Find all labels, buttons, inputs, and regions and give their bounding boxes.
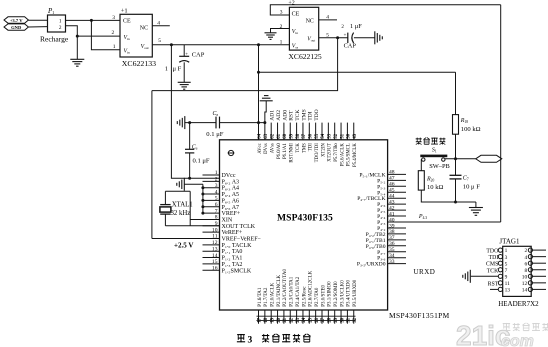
svg-text:58: 58 — [296, 133, 301, 138]
svg-text:7: 7 — [215, 208, 218, 214]
svg-text:TDO: TDO — [486, 249, 498, 255]
svg-text:59: 59 — [289, 133, 294, 138]
svg-text:6: 6 — [215, 202, 218, 208]
wire switch right to flag — [445, 158, 476, 160]
svg-text:GND: GND — [11, 25, 22, 30]
top net labels AD1 AD2 AD0 RST TCK TMS TDI TDO — [270, 109, 320, 121]
bottom pin number rail line 2 — [257, 319, 356, 321]
svg-text:55: 55 — [315, 133, 320, 138]
junction at AVcc stub — [257, 121, 260, 124]
svg-text:P2.5/Rosc: P2.5/Rosc — [302, 286, 307, 307]
connector JTAG1 box — [503, 246, 532, 296]
svg-text:TCK: TCK — [487, 268, 499, 274]
svg-text:P5.5/SMCL: P5.5/SMCL — [347, 143, 352, 166]
svg-text:3: 3 — [215, 183, 218, 189]
junction U2 Vout node — [336, 36, 339, 39]
svg-text:9: 9 — [505, 274, 508, 280]
svg-text:P₆.₆ A7: P₆.₆ A7 — [222, 205, 240, 211]
wire 2.5V to MCU pin11 — [152, 238, 220, 240]
svg-text:S1: S1 — [432, 148, 437, 154]
wire C2 to ground — [354, 37, 375, 39]
svg-text:8: 8 — [524, 268, 527, 274]
svg-text:P3.2/SOMI0: P3.2/SOMI0 — [334, 281, 339, 307]
MCU right pin labels — [357, 172, 386, 267]
svg-text:10 kΩ: 10 kΩ — [427, 184, 444, 191]
ground symbol at U2 pin2 — [265, 32, 277, 34]
resistor R18 body — [453, 115, 459, 135]
svg-text:+2: +2 — [288, 1, 294, 7]
svg-text:6: 6 — [524, 261, 527, 267]
MCU left pin stubs 1-16 — [203, 175, 220, 270]
svg-text:11: 11 — [505, 281, 510, 287]
svg-text:52: 52 — [334, 133, 339, 138]
wire R20 to ground line — [421, 190, 476, 202]
wire 3.3V to reset pullup — [259, 71, 456, 73]
svg-text:7: 7 — [505, 268, 508, 274]
svg-text:4: 4 — [524, 255, 527, 261]
svg-text:NC: NC — [306, 18, 314, 24]
svg-text:TDI: TDI — [309, 143, 314, 151]
wire AVss line left segment — [185, 122, 216, 124]
svg-text:49: 49 — [353, 133, 358, 138]
svg-text:51: 51 — [340, 133, 345, 138]
svg-text:8: 8 — [215, 215, 218, 221]
regulator U1 XC622133 box — [120, 14, 152, 57]
MCU bottom pin numbers 17-32 — [258, 317, 358, 322]
analog pins bus vertical — [202, 184, 204, 213]
MCU top pin numbers 64-49 — [258, 133, 358, 138]
svg-text:P6.1/A1: P6.1/A1 — [283, 143, 288, 159]
wire GND flag to P1 — [28, 26, 47, 28]
svg-text:4: 4 — [215, 189, 218, 195]
svg-text:AD2: AD2 — [276, 110, 282, 121]
svg-text:5: 5 — [215, 196, 218, 202]
wire switch left to R20 — [420, 160, 422, 171]
svg-text:Vss: Vss — [292, 43, 299, 49]
svg-text:53: 53 — [328, 133, 333, 138]
svg-text:5: 5 — [158, 38, 161, 44]
svg-text:P₁.₅SMCLK: P₁.₅SMCLK — [222, 268, 252, 274]
svg-text:AVss: AVss — [271, 143, 276, 153]
svg-text:10 μ F: 10 μ F — [463, 184, 480, 191]
svg-text:SW–PB: SW–PB — [429, 163, 450, 170]
svg-text:5: 5 — [505, 261, 508, 267]
JTAG right pin numbers — [522, 248, 528, 293]
ground symbol sideways at C6 top — [184, 116, 186, 129]
svg-text:16: 16 — [212, 265, 218, 271]
ground symbol below C1 — [178, 81, 191, 83]
ground symbol above DVss pin — [260, 100, 273, 102]
ground symbol reset circuit — [469, 207, 483, 209]
U1 pin labels CE Vin Vin NC Vout — [123, 18, 149, 54]
junction reset pullup branch — [257, 71, 260, 74]
svg-text:TMS: TMS — [302, 143, 307, 153]
svg-text:MSP430F1351PM: MSP430F1351PM — [389, 311, 450, 320]
wire AVcc stub up to 3.3V rail — [258, 45, 260, 140]
wire DVss ground stem — [265, 101, 266, 123]
svg-text:13: 13 — [212, 246, 218, 252]
svg-text:P3.5/URXD0: P3.5/URXD0 — [353, 279, 358, 307]
capacitor C1 plates — [179, 56, 189, 62]
svg-text:61: 61 — [277, 133, 282, 138]
svg-text:C7: C7 — [463, 176, 469, 182]
junction AVcc branch — [257, 43, 260, 46]
svg-text:R20: R20 — [426, 176, 434, 182]
svg-text:TDI: TDI — [489, 255, 499, 261]
svg-text:13: 13 — [505, 288, 511, 294]
wire pullup down to R18 — [455, 72, 457, 114]
svg-text:62: 62 — [270, 133, 275, 138]
svg-text:12: 12 — [212, 240, 218, 246]
MCU left pin numbers 1-16 — [212, 170, 218, 271]
connector flag GND — [4, 24, 28, 30]
svg-text:TMS: TMS — [301, 109, 307, 121]
svg-text:RST: RST — [488, 282, 499, 288]
svg-text:P5.6/ACLK: P5.6/ACLK — [340, 143, 345, 167]
svg-text:XC622133: XC622133 — [122, 59, 156, 68]
svg-text:TDO: TDO — [314, 109, 320, 121]
capacitor C7 10uF — [450, 159, 462, 202]
caption figure 3 — [237, 334, 311, 345]
svg-text:P₁.₁ TA0: P₁.₁ TA0 — [222, 249, 243, 255]
svg-text:P3.4/UTXD0: P3.4/UTXD0 — [347, 279, 352, 306]
svg-text:μ F: μ F — [173, 66, 182, 73]
U1 NC stub — [152, 25, 170, 27]
svg-text:3: 3 — [112, 15, 115, 21]
svg-text:P4.3: P4.3 — [418, 214, 427, 220]
svg-text:Vin: Vin — [124, 35, 131, 41]
wire 2.5V left rail down — [151, 91, 153, 239]
svg-text:Vout: Vout — [307, 36, 315, 42]
wire U2 Vout — [319, 37, 348, 39]
wire ground node to U1 pin2 — [77, 35, 120, 37]
svg-text:1 μF: 1 μF — [350, 23, 362, 30]
junction C6 bottom on DVcc wire — [188, 177, 191, 180]
svg-text:VREF+: VREF+ — [222, 211, 241, 217]
svg-text:P2.0/ACLK: P2.0/ACLK — [271, 282, 276, 306]
MCU bottom pin stubs 17-32 — [259, 310, 354, 324]
svg-text:TCK: TCK — [296, 143, 301, 153]
svg-text:2: 2 — [341, 25, 344, 30]
svg-text:AD1: AD1 — [270, 110, 276, 121]
wire U2 Vout down to 2.5V line — [152, 38, 338, 91]
wire P1 pin2 to ground node — [66, 26, 78, 36]
svg-text:TDI: TDI — [308, 111, 314, 120]
svg-text:P1: P1 — [47, 7, 54, 15]
bottom pin number rail line — [257, 315, 356, 317]
svg-text:3: 3 — [248, 335, 253, 345]
JTAG left pin circles — [498, 248, 502, 292]
svg-text:CE: CE — [123, 18, 131, 24]
MCU top inside pin labels — [258, 143, 358, 167]
svg-text:VeREF+: VeREF+ — [222, 230, 243, 236]
svg-text:XTAL1: XTAL1 — [172, 202, 193, 209]
svg-text:P2.6/ADC12CLK: P2.6/ADC12CLK — [309, 270, 314, 306]
svg-text:CE: CE — [292, 11, 300, 17]
svg-text:P₃.₅/URXD0: P₃.₅/URXD0 — [357, 262, 386, 268]
crystal XTAL1 symbol — [160, 205, 171, 215]
MCU right pin numbers 48-33 — [389, 170, 395, 265]
MCU top pin stubs 64-49 — [259, 123, 354, 140]
svg-text:CMS: CMS — [486, 262, 498, 268]
svg-text:P2.3/CA0/TA1: P2.3/CA0/TA1 — [290, 276, 295, 307]
wire U1 Vout 3.3V rail to U2 — [152, 44, 289, 46]
junction C7 bottom — [454, 201, 457, 204]
svg-text:2: 2 — [112, 30, 115, 36]
wire ground node down — [76, 36, 78, 59]
capacitor C1 1uF branch wire — [183, 45, 185, 57]
svg-text:P₆.₃ A4: P₆.₃ A4 — [222, 186, 240, 192]
wire ground stem — [475, 202, 477, 208]
svg-text:14: 14 — [212, 253, 218, 259]
svg-text:C8: C8 — [213, 111, 219, 117]
bus junction dots pins 3-7 — [201, 186, 204, 214]
wire JTAG pin13 stub — [490, 288, 498, 290]
svg-text:JTAG1: JTAG1 — [499, 238, 520, 246]
MCU right pin stubs 48-33 — [388, 174, 406, 263]
svg-text:P2.7/TA0: P2.7/TA0 — [315, 287, 320, 307]
ground symbol below P1 — [70, 58, 84, 60]
connector flag +3.7V — [4, 17, 28, 23]
svg-text:1: 1 — [59, 19, 62, 25]
wire R18 to switch node — [455, 134, 457, 159]
wire +3.7V flag to P1 — [28, 19, 47, 21]
svg-text:1: 1 — [165, 66, 168, 73]
svg-text:10: 10 — [522, 274, 528, 280]
svg-text:NC: NC — [140, 25, 148, 31]
junction at DVss stub — [263, 121, 266, 124]
svg-text:XT2IN: XT2IN — [321, 143, 326, 157]
svg-text:11: 11 — [212, 234, 218, 240]
svg-text:XT2OUT: XT2OUT — [328, 143, 333, 162]
svg-text:+3.7 V: +3.7 V — [10, 18, 23, 23]
svg-text:Recharge: Recharge — [40, 35, 69, 44]
svg-text:64: 64 — [258, 133, 263, 138]
crystal XTAL1 loop wires — [165, 191, 219, 226]
capacitor C2 plates — [348, 33, 354, 43]
switch SW-PB contacts — [422, 158, 445, 161]
svg-text:9: 9 — [215, 221, 218, 227]
JTAG left pin numbers — [505, 248, 511, 293]
svg-text:12: 12 — [522, 281, 528, 287]
JTAG right pin stubs — [533, 250, 546, 289]
junction DVcc branch — [170, 43, 173, 46]
svg-text:P5.4/MCLK: P5.4/MCLK — [353, 143, 358, 167]
wire U2 CE loop to top rail — [270, 5, 500, 15]
svg-text:HEADER7X2: HEADER7X2 — [498, 300, 539, 308]
svg-text:P5.7/TBo: P5.7/TBo — [334, 143, 339, 162]
wire JTAG pin9 to ground — [471, 275, 499, 277]
svg-text:Vout: Vout — [141, 44, 149, 50]
P1 pin digits 1 2 — [59, 19, 62, 31]
svg-text:63: 63 — [264, 133, 269, 138]
ground symbol sideways JTAG — [469, 270, 471, 283]
svg-text:60: 60 — [283, 133, 288, 138]
svg-text:0.1 μF: 0.1 μF — [206, 131, 223, 138]
svg-text:32 kHz: 32 kHz — [171, 210, 191, 217]
svg-text:P₆.₄ A5: P₆.₄ A5 — [222, 192, 240, 198]
svg-text:54: 54 — [321, 133, 326, 138]
svg-text:CAP: CAP — [192, 52, 205, 59]
svg-text:Vin: Vin — [292, 29, 299, 35]
JTAG right pin circles — [528, 248, 532, 292]
svg-text:P3.0/STE0: P3.0/STE0 — [321, 284, 326, 306]
wire P4.3 to rail — [406, 221, 501, 223]
svg-text:P1.7/TA2: P1.7/TA2 — [264, 287, 269, 307]
svg-text:+: + — [344, 34, 347, 39]
capacitor C8 0.1uF plates — [216, 117, 220, 129]
wire DVcc drop to MCU pin1 — [171, 45, 219, 179]
svg-text:P2.2/CAOUT/TA0: P2.2/CAOUT/TA0 — [283, 269, 288, 307]
svg-text:P₆.₂ A3: P₆.₂ A3 — [222, 179, 240, 185]
MCU U3 MSP430F135 box — [220, 140, 388, 310]
U2 pin labels CE Vin Vss NC Vout — [292, 11, 316, 49]
svg-text:2: 2 — [59, 25, 62, 31]
svg-text:57: 57 — [302, 133, 307, 138]
svg-text:15: 15 — [212, 259, 218, 265]
ground symbol sideways near pin2 — [183, 178, 185, 191]
svg-text:RST/NMI: RST/NMI — [290, 143, 295, 163]
svg-text:56: 56 — [309, 133, 314, 138]
svg-text:+: + — [185, 53, 188, 58]
svg-text:P₁.₀ TACLK: P₁.₀ TACLK — [222, 243, 253, 249]
svg-text:AD0: AD0 — [282, 110, 288, 121]
wire XIN pin8 to crystal — [190, 218, 219, 220]
switch SW-PB bar — [420, 155, 447, 158]
svg-text:P6.0/A0: P6.0/A0 — [277, 143, 282, 159]
connector P1 box — [48, 15, 66, 32]
svg-text:1: 1 — [113, 44, 116, 50]
svg-text:0.1 μF: 0.1 μF — [193, 157, 210, 164]
U2 NC stub — [319, 19, 337, 21]
wire branch to U1 Vin pin1 — [91, 20, 120, 49]
capacitor C6 0.1uF — [185, 123, 194, 179]
svg-text:50: 50 — [347, 133, 352, 138]
svg-text:3: 3 — [505, 255, 508, 261]
wire P1 pin1 to U1 CE (node +3.7V) — [66, 19, 121, 21]
svg-text:TCK: TCK — [295, 110, 301, 121]
svg-text:DVss: DVss — [264, 143, 269, 154]
svg-text:P₁.₂ TA1: P₁.₂ TA1 — [222, 256, 243, 262]
connector flag reset — [476, 155, 502, 162]
svg-text:P2.4/CA1/TA2: P2.4/CA1/TA2 — [296, 276, 301, 307]
junction on +3.7V wire — [90, 19, 93, 22]
junction ground node — [76, 35, 79, 38]
svg-text:+1: +1 — [121, 8, 128, 15]
svg-text:com: com — [501, 333, 534, 347]
svg-text:CAP: CAP — [344, 42, 357, 49]
svg-text:2: 2 — [215, 177, 218, 183]
svg-text:100 kΩ: 100 kΩ — [461, 126, 481, 133]
svg-text:10: 10 — [212, 227, 218, 233]
svg-text:P2.1/TAINCLK: P2.1/TAINCLK — [277, 274, 282, 306]
svg-text:Vin: Vin — [124, 49, 131, 55]
wire AVss line right segment to top pins — [220, 122, 265, 124]
junction AVss node — [188, 121, 191, 124]
wire ground to analog bus — [184, 183, 203, 185]
svg-text:VREF−VeREF−: VREF−VeREF− — [222, 237, 262, 243]
regulator U2 XC622125 box — [289, 7, 318, 50]
svg-text:14: 14 — [522, 288, 528, 294]
svg-text:R18: R18 — [460, 118, 468, 124]
svg-text:P3.1/SIMO0: P3.1/SIMO0 — [328, 281, 333, 307]
svg-text:RST: RST — [289, 110, 295, 121]
svg-text:P₆.₅ A6: P₆.₅ A6 — [222, 198, 240, 204]
svg-text:+2.5 V: +2.5 V — [174, 241, 193, 249]
svg-text:1: 1 — [215, 170, 218, 176]
svg-text:P1.6/TA1: P1.6/TA1 — [258, 287, 263, 307]
svg-text:P3.3/UCLK0: P3.3/UCLK0 — [340, 280, 345, 307]
svg-text:XOUT TCLK: XOUT TCLK — [222, 224, 256, 230]
svg-text:XIN: XIN — [222, 217, 233, 223]
wire C1 to ground — [183, 62, 185, 82]
MCU bottom inside pin labels — [258, 269, 358, 307]
MCU pin1 marker — [228, 150, 235, 155]
svg-text:C6: C6 — [192, 144, 198, 150]
ground symbol right of C2 — [374, 31, 376, 44]
svg-text:DVcc: DVcc — [222, 173, 236, 179]
watermark 21ic — [456, 320, 548, 347]
svg-text:TDO/TDI: TDO/TDI — [315, 143, 320, 163]
svg-text:33: 33 — [389, 259, 395, 265]
wire CE control rail right side — [500, 5, 502, 222]
label external reset chinese — [416, 138, 422, 140]
svg-text:MSP430F135: MSP430F135 — [277, 213, 333, 224]
svg-text:AVcc: AVcc — [258, 143, 263, 154]
svg-text:P₁.₃ TA2: P₁.₃ TA2 — [222, 262, 243, 268]
wire U2 Vin pin2 to ground — [271, 29, 290, 33]
svg-text:1: 1 — [505, 248, 508, 254]
svg-text:XC622125: XC622125 — [288, 52, 322, 61]
MCU left pin labels — [222, 173, 262, 274]
resistor R20 body — [418, 171, 424, 190]
svg-text:1: 1 — [280, 39, 283, 45]
svg-text:2: 2 — [524, 248, 527, 254]
svg-text:URXD: URXD — [414, 268, 436, 276]
junction reset node — [454, 157, 457, 160]
